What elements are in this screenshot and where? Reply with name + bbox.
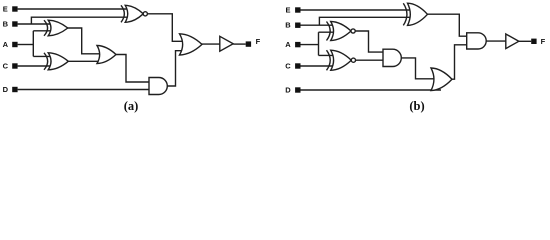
wire E to U1 (a) — [18, 8, 129, 10]
wire B branch to U1 (a) — [31, 17, 129, 24]
buffer U7 (a) — [220, 36, 233, 51]
svg-text:E: E — [3, 5, 8, 14]
or gate U6 (a) — [180, 34, 203, 55]
input terminal D (a) — [12, 87, 17, 92]
xor gate U3 (a) — [44, 53, 68, 70]
input terminal B (b) — [295, 23, 300, 28]
wire E to V1 (b) — [301, 9, 415, 11]
svg-text:C: C — [3, 62, 9, 71]
wire U3 out to U4 (a) — [68, 60, 106, 62]
wire A to node (b) — [301, 44, 319, 46]
input terminal A (a) — [12, 42, 17, 47]
wire A branch to V2 (b) — [319, 31, 339, 33]
svg-text:C: C — [285, 62, 291, 71]
svg-text:(a): (a) — [124, 99, 139, 113]
xor gate V1 (b) — [403, 3, 427, 25]
wire V3 out to V4 (b) — [355, 59, 388, 61]
wire U1 out to U6 (a) — [147, 14, 188, 42]
svg-text:B: B — [285, 21, 291, 30]
or gate V5 (b) — [431, 68, 452, 91]
wire U6 out to U7 (a) — [201, 43, 224, 45]
wire V4 out to V5 (b) — [401, 58, 439, 79]
input terminal C (b) — [295, 63, 300, 68]
input terminal C (a) — [12, 63, 17, 68]
svg-text:A: A — [285, 40, 291, 49]
svg-text:E: E — [285, 6, 290, 15]
wire V1 out to V6 (b) — [427, 14, 472, 36]
wire V5 out to V6 (b) — [451, 45, 471, 79]
wire V7 out to F (b) — [519, 40, 531, 42]
wire B to U2 (a) — [18, 23, 53, 25]
wire D to V5 (b) — [301, 89, 442, 91]
and gate V6 (b) — [467, 33, 487, 49]
or gate U4 (a) — [97, 46, 116, 64]
xor gate U2 (a) — [44, 20, 68, 36]
wire U4 out to U5 (a) — [115, 55, 155, 83]
svg-text:A: A — [3, 40, 9, 49]
svg-text:D: D — [285, 86, 291, 95]
wire U5 out to U6 (a) — [167, 51, 188, 86]
node A riser (b) — [318, 32, 320, 55]
xnor gate U1 (a) — [121, 5, 147, 22]
svg-text:F: F — [256, 37, 261, 46]
buffer V7 (b) — [506, 34, 519, 49]
xnor gate V2 (b) — [327, 22, 356, 41]
wire A branch to V3 (b) — [319, 54, 339, 56]
and gate V4 (b) — [383, 49, 401, 66]
and gate U5 (a) — [149, 78, 167, 95]
wire A to node (a) — [18, 44, 34, 46]
input terminal B (a) — [12, 21, 17, 26]
wire C to U3 (a) — [18, 65, 53, 67]
wire A branch to U3 (a) — [33, 55, 53, 57]
wire C to V3 (b) — [301, 65, 339, 67]
output terminal F (a) — [246, 41, 251, 46]
input terminal E (b) — [295, 7, 300, 12]
xnor gate V3 (b) — [327, 50, 356, 70]
wire U7 out to F (a) — [233, 43, 246, 45]
input terminal D (b) — [295, 87, 300, 92]
wire B branch to V1 (b) — [319, 17, 414, 25]
node A riser (a) — [32, 31, 34, 57]
wire U2 out to U4 (a) — [67, 28, 104, 54]
svg-text:B: B — [3, 20, 9, 29]
svg-text:F: F — [541, 37, 546, 46]
wire B to V2 (b) — [301, 24, 339, 26]
svg-text:(b): (b) — [409, 99, 424, 113]
wire D to U5 (a) — [18, 89, 154, 91]
input terminal A (b) — [295, 42, 300, 47]
input terminal E (a) — [12, 6, 17, 11]
wire V6 out to V7 (b) — [486, 40, 510, 42]
wire V2 out to V4 (b) — [355, 31, 388, 52]
output terminal F (b) — [531, 39, 536, 44]
svg-text:D: D — [3, 85, 9, 94]
wire A branch to U2 (a) — [33, 30, 53, 32]
